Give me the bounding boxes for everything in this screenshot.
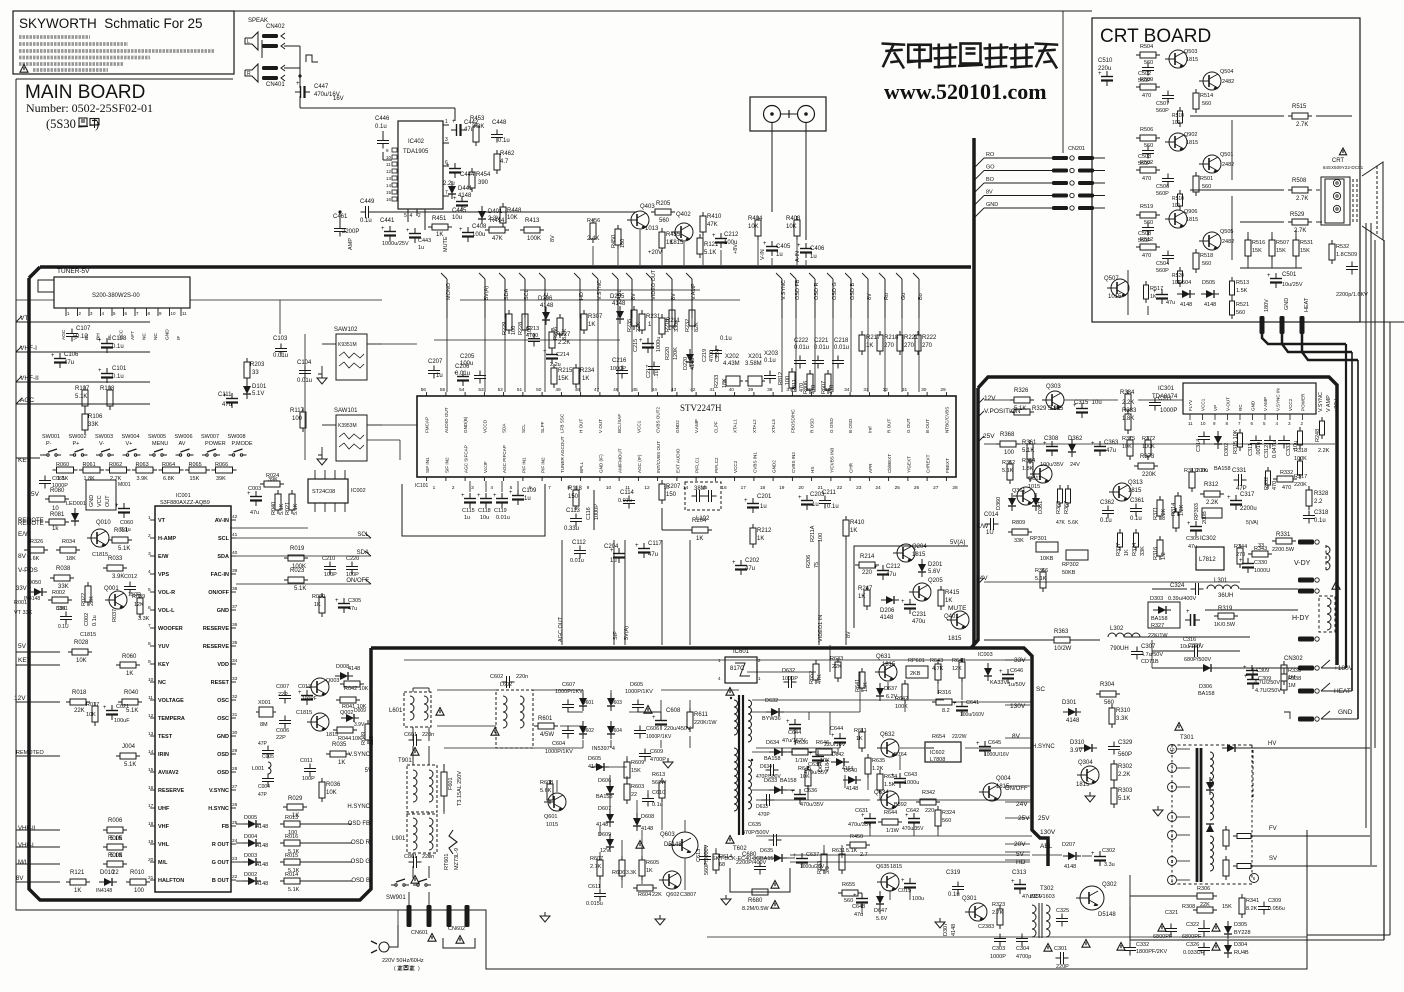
svg-text:6.8K: 6.8K xyxy=(163,476,175,482)
svg-text:Q003: Q003 xyxy=(326,678,339,684)
svg-text:3.9K: 3.9K xyxy=(112,574,124,580)
svg-text:CLPF: CLPF xyxy=(713,421,718,433)
svg-text:Q313: Q313 xyxy=(1128,480,1143,486)
svg-text:+: + xyxy=(639,338,643,344)
svg-text:4148: 4148 xyxy=(540,303,554,309)
svg-text:AV: AV xyxy=(179,441,186,447)
svg-text:C211: C211 xyxy=(822,490,837,496)
svg-text:220n: 220n xyxy=(516,674,528,680)
svg-text:560P: 560P xyxy=(1156,108,1169,114)
svg-text:100u/160V: 100u/160V xyxy=(960,712,985,718)
svg-text:YUV: YUV xyxy=(158,644,170,650)
svg-text:D601: D601 xyxy=(582,700,594,706)
svg-text:C220: C220 xyxy=(346,556,359,562)
svg-text:MZ73L-9: MZ73L-9 xyxy=(454,848,460,870)
svg-text:R509: R509 xyxy=(1140,77,1153,83)
svg-text:R035: R035 xyxy=(332,742,347,748)
svg-text:ABL: ABL xyxy=(1040,843,1053,850)
svg-text:C444: C444 xyxy=(460,172,475,178)
svg-text:V.AMP: V.AMP xyxy=(694,419,699,433)
svg-text:220: 220 xyxy=(862,570,873,576)
svg-text:+: + xyxy=(976,741,980,747)
svg-text:R363: R363 xyxy=(1054,629,1069,635)
svg-text:+: + xyxy=(901,599,905,605)
svg-text:55: 55 xyxy=(440,387,446,393)
svg-text:C326: C326 xyxy=(1186,942,1199,948)
svg-text:V AMP: V AMP xyxy=(1263,397,1268,411)
svg-text:B OSD: B OSD xyxy=(848,418,853,433)
svg-text:X001: X001 xyxy=(258,700,271,706)
svg-text:15K: 15K xyxy=(558,376,569,382)
svg-text:D637: D637 xyxy=(884,686,897,692)
svg-text:RESERVE: RESERVE xyxy=(158,788,185,794)
svg-text:D009: D009 xyxy=(354,708,366,714)
svg-text:C643: C643 xyxy=(904,772,917,778)
svg-text:+: + xyxy=(798,495,802,501)
svg-text:ON/OFF: ON/OFF xyxy=(208,590,229,596)
svg-text:Q403: Q403 xyxy=(640,204,655,210)
svg-text:C362: C362 xyxy=(1100,500,1115,506)
svg-text:R106: R106 xyxy=(88,414,103,420)
svg-text:D304: D304 xyxy=(1234,942,1247,948)
svg-text:C315 10u: C315 10u xyxy=(1074,400,1102,406)
svg-text:C510: C510 xyxy=(1098,58,1113,64)
svg-text:R373: R373 xyxy=(1140,454,1155,460)
svg-text:C333: C333 xyxy=(1286,443,1292,456)
svg-text:B OUT: B OUT xyxy=(925,419,930,433)
svg-text:7: 7 xyxy=(445,190,448,196)
svg-text:R049: R049 xyxy=(361,732,367,745)
svg-text:MUTE: MUTE xyxy=(443,236,449,252)
svg-text:560: 560 xyxy=(1202,184,1211,190)
svg-text:4.7U/250V: 4.7U/250V xyxy=(1255,688,1281,694)
svg-text:1815: 1815 xyxy=(326,732,338,738)
svg-text:R374: R374 xyxy=(1132,543,1138,556)
svg-text:38: 38 xyxy=(232,586,238,592)
svg-text:C449: C449 xyxy=(360,199,375,205)
svg-text:C330: C330 xyxy=(1254,560,1267,566)
svg-text:1000P: 1000P xyxy=(594,504,600,520)
svg-text:R646: R646 xyxy=(816,740,829,746)
svg-text:Q505: Q505 xyxy=(1220,229,1233,235)
svg-text:38M: 38M xyxy=(694,486,706,492)
svg-text:F601: F601 xyxy=(448,777,454,790)
svg-text:1815: 1815 xyxy=(1050,406,1064,412)
svg-text:D360: D360 xyxy=(996,497,1002,510)
svg-text:5: 5 xyxy=(148,587,151,593)
svg-text:C680: C680 xyxy=(742,852,757,858)
svg-text:4148: 4148 xyxy=(256,881,268,887)
svg-text:BA158: BA158 xyxy=(764,756,781,762)
svg-text:11: 11 xyxy=(148,695,153,701)
svg-text:0.1u: 0.1u xyxy=(1130,516,1142,522)
svg-text:1K: 1K xyxy=(666,240,673,246)
svg-text:V.SYNC IN: V.SYNC IN xyxy=(1276,388,1281,411)
svg-text:10: 10 xyxy=(386,155,392,160)
svg-text:IC602: IC602 xyxy=(930,750,945,756)
svg-text:+: + xyxy=(853,893,857,899)
svg-text:R312: R312 xyxy=(1204,482,1219,488)
svg-text:R066: R066 xyxy=(215,462,228,468)
svg-text:SW006: SW006 xyxy=(175,434,193,440)
svg-text:R404: R404 xyxy=(748,216,763,222)
svg-text:24V: 24V xyxy=(976,575,988,582)
svg-text:4148: 4148 xyxy=(612,301,626,307)
svg-text:GND: GND xyxy=(1284,298,1290,310)
svg-text:8: 8 xyxy=(148,641,151,647)
svg-text:R033: R033 xyxy=(108,556,123,562)
svg-text:19: 19 xyxy=(779,485,785,491)
svg-text:100P: 100P xyxy=(302,776,315,782)
svg-text:R316: R316 xyxy=(938,690,951,696)
svg-text:R326: R326 xyxy=(30,539,43,545)
svg-text:22P: 22P xyxy=(276,735,286,741)
svg-text:GND: GND xyxy=(1251,400,1256,411)
svg-text:C507: C507 xyxy=(1156,101,1169,107)
svg-text:SIF IN1: SIF IN1 xyxy=(425,457,430,473)
svg-text:R333: R333 xyxy=(1122,408,1137,414)
svg-text:OSC: OSC xyxy=(217,716,229,722)
svg-text:AGC (IF): AGC (IF) xyxy=(637,454,642,473)
svg-text:2.7K: 2.7K xyxy=(1296,122,1308,128)
svg-text:R332: R332 xyxy=(1264,477,1270,490)
svg-text:R324: R324 xyxy=(942,810,955,816)
svg-text:R506: R506 xyxy=(1140,127,1153,133)
svg-text:4: 4 xyxy=(148,569,151,575)
svg-text:R036: R036 xyxy=(326,782,341,788)
svg-text:100K: 100K xyxy=(527,236,541,242)
svg-text:D605: D605 xyxy=(588,756,601,762)
svg-text:SPEAK: SPEAK xyxy=(248,18,268,24)
svg-text:C645: C645 xyxy=(988,740,1001,746)
svg-text:200B: 200B xyxy=(1202,511,1208,524)
svg-text:VCC: VCC xyxy=(97,495,103,507)
svg-text:L901: L901 xyxy=(392,836,406,842)
svg-text:C332: C332 xyxy=(1136,942,1149,948)
svg-text:V-POS: V-POS xyxy=(18,567,39,574)
svg-text:47u: 47u xyxy=(1106,448,1116,454)
svg-text:RP601: RP601 xyxy=(908,658,925,664)
svg-text:470: 470 xyxy=(1282,485,1291,491)
svg-text:4700p: 4700p xyxy=(1016,954,1031,960)
svg-text:C205: C205 xyxy=(460,354,475,360)
svg-text:23: 23 xyxy=(856,485,862,491)
svg-text:R038: R038 xyxy=(56,566,71,572)
svg-text:VPS: VPS xyxy=(158,572,169,578)
svg-text:11: 11 xyxy=(1188,421,1193,426)
svg-text:C644: C644 xyxy=(788,730,801,736)
svg-text:470u/35V: 470u/35V xyxy=(902,826,924,832)
svg-text:4148: 4148 xyxy=(256,843,268,849)
svg-text:3.3u: 3.3u xyxy=(1104,862,1115,868)
svg-text:560: 560 xyxy=(942,818,951,824)
svg-text:R635: R635 xyxy=(872,758,885,764)
svg-text:R531: R531 xyxy=(1300,240,1313,246)
svg-text:J004: J004 xyxy=(122,744,136,750)
svg-text:T301: T301 xyxy=(1180,735,1194,741)
svg-text:4.7K: 4.7K xyxy=(932,666,944,672)
svg-text:33K: 33K xyxy=(1140,546,1146,556)
svg-text:Y/GEXT: Y/GEXT xyxy=(906,456,911,473)
svg-text:D050: D050 xyxy=(28,580,41,586)
svg-text:TDA1905: TDA1905 xyxy=(403,149,429,155)
svg-text:R532: R532 xyxy=(1336,244,1349,250)
svg-text:B892: B892 xyxy=(894,802,907,808)
svg-text:3.3K: 3.3K xyxy=(138,616,150,622)
svg-text:3.3K: 3.3K xyxy=(1116,716,1128,722)
svg-text:54: 54 xyxy=(459,387,465,393)
svg-text:R001: R001 xyxy=(14,600,27,606)
svg-text:INT/CVBS OUT: INT/CVBS OUT xyxy=(656,441,661,473)
svg-text:C318: C318 xyxy=(1314,510,1329,516)
svg-text:C312: C312 xyxy=(1264,445,1270,458)
svg-text:100u: 100u xyxy=(460,361,473,367)
svg-text:E/W: E/W xyxy=(18,531,31,538)
svg-text:18: 18 xyxy=(760,485,766,491)
svg-text:OSD G: OSD G xyxy=(351,859,371,865)
svg-text:C309: C309 xyxy=(1256,668,1269,674)
svg-text:C313: C313 xyxy=(1012,870,1027,876)
svg-text:4148: 4148 xyxy=(690,358,696,370)
svg-text:R023: R023 xyxy=(290,568,305,574)
svg-text:8V: 8V xyxy=(986,190,993,196)
svg-text:Q301: Q301 xyxy=(962,896,977,902)
svg-text:NTBC/CVBS: NTBC/CVBS xyxy=(944,407,949,433)
svg-text:R233: R233 xyxy=(714,375,720,388)
svg-text:100u: 100u xyxy=(1196,468,1208,474)
svg-text:R212: R212 xyxy=(757,528,772,534)
svg-text:5.1K: 5.1K xyxy=(1022,448,1034,454)
svg-text:R060: R060 xyxy=(312,594,325,600)
svg-text:24: 24 xyxy=(875,485,881,491)
svg-text:23: 23 xyxy=(232,856,238,862)
svg-text:OSC: OSC xyxy=(217,698,229,704)
svg-text:D003: D003 xyxy=(244,853,257,859)
svg-text:51: 51 xyxy=(517,387,523,393)
svg-text:47u: 47u xyxy=(348,606,357,612)
svg-text:4148: 4148 xyxy=(846,786,858,792)
svg-text:12: 12 xyxy=(148,713,154,719)
svg-text:25V: 25V xyxy=(983,433,995,440)
svg-text:VCC1: VCC1 xyxy=(636,420,641,433)
svg-text:1u/50V: 1u/50V xyxy=(1008,682,1026,688)
svg-text:C446: C446 xyxy=(375,116,390,122)
svg-text:BCL/SAF: BCL/SAF xyxy=(617,414,622,433)
svg-text:R456: R456 xyxy=(587,218,600,224)
svg-text:R521: R521 xyxy=(1236,302,1249,308)
svg-text:KEY: KEY xyxy=(18,657,32,664)
svg-text:0.015u: 0.015u xyxy=(586,901,603,907)
svg-text:34: 34 xyxy=(232,658,238,664)
svg-text:+: + xyxy=(115,503,119,509)
svg-text:20: 20 xyxy=(798,485,804,491)
svg-text:RP302: RP302 xyxy=(1062,562,1079,568)
svg-text:CHR: CHR xyxy=(849,462,854,473)
svg-text:R017: R017 xyxy=(86,702,99,708)
svg-text:CVBS IN1: CVBS IN1 xyxy=(752,452,757,473)
svg-text:K9351M: K9351M xyxy=(338,342,357,348)
svg-text:42: 42 xyxy=(690,387,696,393)
svg-text:HEAT: HEAT xyxy=(1304,297,1310,312)
svg-text:R: R xyxy=(247,71,251,77)
svg-text:100: 100 xyxy=(511,326,517,335)
svg-text:R631: R631 xyxy=(832,848,845,854)
svg-text:+: + xyxy=(103,705,107,711)
svg-text:37: 37 xyxy=(232,604,238,610)
svg-text:29: 29 xyxy=(232,748,238,754)
svg-text:REMOTEO: REMOTEO xyxy=(16,750,45,756)
svg-text:HS: HS xyxy=(810,467,815,473)
svg-text:NC: NC xyxy=(158,680,166,686)
svg-text:C317: C317 xyxy=(1240,492,1255,498)
svg-text:C101: C101 xyxy=(112,366,127,372)
svg-text:180V: 180V xyxy=(1264,299,1270,312)
svg-text:R013: R013 xyxy=(285,815,298,821)
svg-text:C004: C004 xyxy=(258,784,270,790)
svg-text:GND: GND xyxy=(89,495,95,507)
svg-text:C108: C108 xyxy=(112,336,127,342)
svg-text:1815: 1815 xyxy=(1128,488,1142,494)
svg-text:100: 100 xyxy=(134,888,145,894)
svg-text:Q504: Q504 xyxy=(1220,69,1233,75)
svg-text:BCT-1603: BCT-1603 xyxy=(1030,894,1055,900)
svg-text:Q303: Q303 xyxy=(1046,384,1061,390)
svg-text:10u/25V: 10u/25V xyxy=(1282,282,1303,288)
svg-text:R080: R080 xyxy=(50,488,65,494)
svg-text:CN602: CN602 xyxy=(448,926,465,932)
svg-text:AUDIO OUT: AUDIO OUT xyxy=(444,407,449,433)
svg-text:D002: D002 xyxy=(244,872,257,878)
svg-text:1K: 1K xyxy=(757,536,764,542)
svg-text:R121: R121 xyxy=(70,870,85,876)
svg-text:10u: 10u xyxy=(480,515,489,521)
svg-text:+: + xyxy=(1186,609,1190,615)
svg-text:R OUT: R OUT xyxy=(212,842,230,848)
svg-text:12V: 12V xyxy=(600,848,610,854)
svg-text:5.1K: 5.1K xyxy=(1002,468,1014,474)
svg-text:XTAL1: XTAL1 xyxy=(733,419,738,433)
svg-text:X202: X202 xyxy=(725,354,740,360)
svg-text:VHF-I: VHF-I xyxy=(20,345,37,352)
svg-text:470: 470 xyxy=(1142,253,1151,259)
svg-text:V.SYNC: V.SYNC xyxy=(1318,392,1324,412)
svg-text:IC302: IC302 xyxy=(1200,536,1217,542)
svg-text:SW001: SW001 xyxy=(42,434,60,440)
svg-text:R029: R029 xyxy=(288,796,303,802)
svg-text:1815: 1815 xyxy=(1186,140,1198,146)
svg-text:V.SYNC: V.SYNC xyxy=(348,752,370,758)
svg-text:B764: B764 xyxy=(894,752,907,758)
svg-text:82K: 82K xyxy=(694,322,700,332)
svg-text:(5S30: (5S30 xyxy=(46,117,76,131)
svg-text:IC402: IC402 xyxy=(408,139,425,145)
svg-text:X203: X203 xyxy=(764,351,779,357)
svg-text:R010: R010 xyxy=(130,870,145,876)
svg-text:22K: 22K xyxy=(74,708,85,714)
svg-text:R455: R455 xyxy=(666,232,681,238)
svg-text:100: 100 xyxy=(1004,450,1015,456)
svg-text:15K: 15K xyxy=(631,768,641,774)
svg-text:C461: C461 xyxy=(333,214,348,220)
svg-text:+: + xyxy=(1187,521,1191,527)
svg-text:+: + xyxy=(763,241,767,247)
svg-text:C506: C506 xyxy=(1156,184,1169,190)
svg-text:39: 39 xyxy=(748,387,754,393)
svg-text:D206: D206 xyxy=(880,608,895,614)
svg-text:1u: 1u xyxy=(464,515,470,521)
svg-text:1K: 1K xyxy=(866,343,873,349)
svg-text:5.1K: 5.1K xyxy=(288,887,300,893)
svg-text:R205: R205 xyxy=(656,201,671,207)
svg-text:C303: C303 xyxy=(992,946,1005,952)
svg-text:R364: R364 xyxy=(1022,458,1035,464)
svg-text:C002: C002 xyxy=(84,613,90,626)
svg-text:R203: R203 xyxy=(250,362,265,368)
svg-text:R410: R410 xyxy=(850,520,865,526)
svg-text:D633: D633 xyxy=(756,804,768,810)
svg-text:C644: C644 xyxy=(830,726,843,732)
svg-text:AV-IN: AV-IN xyxy=(215,518,229,524)
svg-text:0.1u: 0.1u xyxy=(112,374,124,380)
svg-text:47K: 47K xyxy=(492,236,503,242)
svg-text:GND (IF): GND (IF) xyxy=(598,454,603,473)
svg-text:G OUT: G OUT xyxy=(212,860,230,866)
svg-text:13: 13 xyxy=(386,176,392,181)
svg-text:5V: 5V xyxy=(365,768,372,774)
svg-text:R316: R316 xyxy=(1153,547,1159,560)
svg-text:C001: C001 xyxy=(56,606,68,612)
svg-text:C314: C314 xyxy=(1196,439,1202,452)
svg-text:R410: R410 xyxy=(707,214,722,220)
svg-text:470: 470 xyxy=(1142,93,1151,99)
svg-text:GND2: GND2 xyxy=(675,420,680,433)
svg-text:C201: C201 xyxy=(757,494,772,500)
svg-text:24V: 24V xyxy=(1070,462,1080,468)
svg-text:R529: R529 xyxy=(1290,212,1305,218)
svg-text:POWER: POWER xyxy=(1301,393,1306,411)
svg-text:1.5K: 1.5K xyxy=(1236,288,1248,294)
svg-text:1.2K: 1.2K xyxy=(872,766,884,772)
svg-text:R028: R028 xyxy=(74,640,89,646)
svg-text:C231: C231 xyxy=(912,612,927,618)
svg-text:OUT: OUT xyxy=(105,495,111,507)
svg-text:R607: R607 xyxy=(590,856,603,862)
svg-text:R207: R207 xyxy=(666,484,681,490)
svg-text:D647: D647 xyxy=(874,908,887,914)
svg-text:+: + xyxy=(296,81,300,87)
svg-text:5.1K: 5.1K xyxy=(124,762,136,768)
svg-text:C307: C307 xyxy=(1141,644,1156,650)
svg-text:8.2M/0.5W: 8.2M/0.5W xyxy=(742,906,769,912)
svg-text:10K: 10K xyxy=(748,224,759,230)
svg-text:D634: D634 xyxy=(766,740,779,746)
svg-text:Q401: Q401 xyxy=(944,614,959,620)
svg-text:SAW102: SAW102 xyxy=(334,327,358,333)
svg-text:1K: 1K xyxy=(126,671,133,677)
svg-text:4148: 4148 xyxy=(1180,302,1192,308)
svg-text:CN401: CN401 xyxy=(266,82,285,88)
svg-text:150: 150 xyxy=(568,494,579,500)
svg-text:D605: D605 xyxy=(630,682,643,688)
svg-text:RO: RO xyxy=(986,152,995,158)
svg-text:D205: D205 xyxy=(610,294,625,300)
svg-text:C329: C329 xyxy=(1118,740,1133,746)
svg-text:1u: 1u xyxy=(760,504,767,510)
svg-text:E/W: E/W xyxy=(158,554,169,560)
svg-text:1K: 1K xyxy=(945,598,952,604)
svg-text:47K: 47K xyxy=(1056,520,1066,526)
svg-text:VHF-I: VHF-I xyxy=(18,843,34,849)
